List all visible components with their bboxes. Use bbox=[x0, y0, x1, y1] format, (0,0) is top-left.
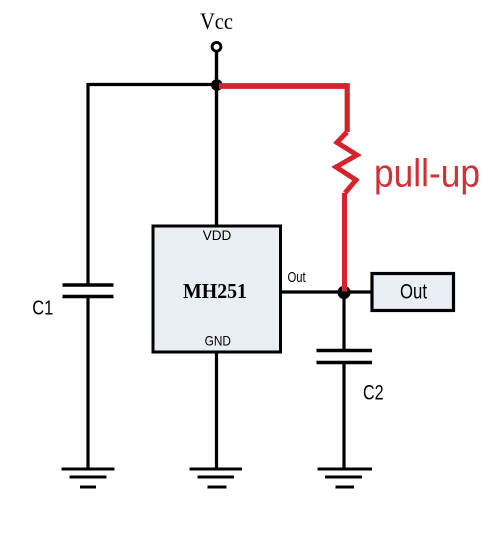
wire Out node down to C2 bbox=[342, 292, 345, 351]
wire resistor to Out node bbox=[342, 193, 347, 292]
resistor pull-up bbox=[336, 132, 357, 193]
svg-text:Out: Out bbox=[288, 270, 306, 286]
wire Vcc stem down to VDD bbox=[215, 52, 218, 227]
svg-text:VDD: VDD bbox=[203, 228, 232, 244]
wire top horizontal to C1 bbox=[88, 85, 217, 286]
terminal Vcc bbox=[212, 42, 221, 51]
junction dot at Out node bbox=[337, 286, 350, 299]
svg-text:Out: Out bbox=[400, 280, 427, 304]
wire C2 to ground bbox=[342, 363, 345, 470]
svg-text:pull-up: pull-up bbox=[374, 153, 480, 196]
junction dot at Vcc rail bbox=[211, 79, 223, 91]
wire pull-up vertical bbox=[345, 83, 350, 132]
wire C1 to ground bbox=[86, 297, 89, 470]
capacitor C2 bbox=[317, 351, 373, 363]
svg-text:C2: C2 bbox=[363, 381, 384, 404]
ground under C2 bbox=[318, 469, 373, 487]
svg-text:MH251: MH251 bbox=[183, 279, 247, 303]
svg-text:C1: C1 bbox=[32, 298, 53, 320]
wire pull-up rail bbox=[219, 83, 347, 89]
wire GND to ground bbox=[215, 352, 218, 469]
wire Out pin to Out box bbox=[281, 290, 372, 293]
IC U1 MH251 body bbox=[153, 226, 281, 352]
svg-text:Vcc: Vcc bbox=[200, 9, 233, 34]
ground under C1 bbox=[62, 469, 115, 487]
capacitor C1 bbox=[63, 285, 114, 297]
ground under MH251 bbox=[190, 469, 243, 487]
svg-text:GND: GND bbox=[205, 332, 231, 348]
output box Out bbox=[372, 274, 454, 311]
